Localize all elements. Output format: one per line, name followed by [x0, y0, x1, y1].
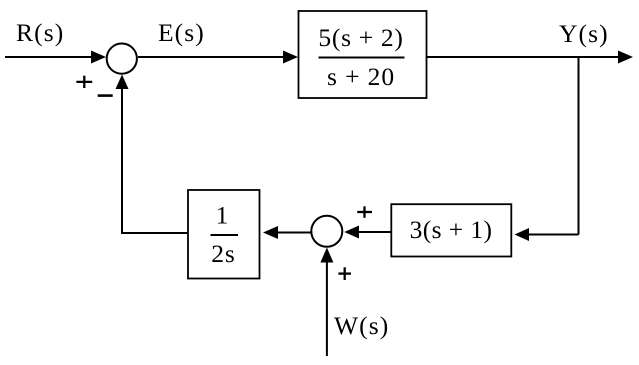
block G1 — [299, 11, 427, 98]
svg-text:E(s): E(s) — [158, 18, 205, 47]
wire: feedback tap drop from output node — [578, 57, 580, 235]
sign - at S1 feedback input — [98, 94, 113, 97]
sign + at S2 right input — [357, 211, 372, 213]
svg-text:Y(s): Y(s) — [559, 19, 609, 48]
fraction bar of G1 — [319, 57, 405, 59]
svg-text:W(s): W(s) — [334, 311, 389, 340]
wire: R(s) input into summing junction S1 — [5, 56, 93, 58]
sign + at S1 input — [76, 81, 92, 83]
summing junction S2 — [311, 216, 342, 247]
fraction bar of H2 — [211, 234, 239, 236]
wire: output from G1 to Y(s) — [427, 56, 621, 58]
svg-text:5(s + 2): 5(s + 2) — [318, 23, 403, 52]
svg-text:3(s + 1): 3(s + 1) — [410, 215, 493, 244]
wire: E(s) from S1 to block G1 — [138, 56, 285, 58]
block H1 — [391, 204, 511, 256]
wire: feedback from H2 left then up into S1 — [122, 87, 188, 233]
svg-text:1: 1 — [216, 201, 229, 230]
wire: from S2 to block H2 — [276, 232, 311, 234]
block H2 — [188, 190, 260, 279]
svg-text:2s: 2s — [211, 239, 235, 268]
svg-text:s + 20: s + 20 — [327, 62, 395, 91]
wire: W(s) input up into S2 — [326, 261, 328, 356]
wire: from H1 to summing junction S2 — [357, 231, 391, 233]
summing junction S1 — [107, 44, 137, 74]
svg-text:R(s): R(s) — [16, 18, 64, 47]
wire: feedback into block H1 — [526, 234, 579, 236]
sign + at S2 bottom input — [338, 272, 351, 274]
